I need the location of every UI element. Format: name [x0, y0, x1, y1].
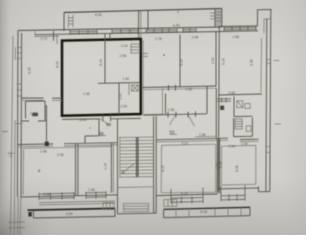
- east outer wall: [270, 10, 271, 192]
- porch box left of entrance: [103, 203, 114, 210]
- room1 inner top line: [24, 147, 76, 148]
- left parapet top (thick dark): [28, 208, 116, 210]
- bathroom inner divider: [128, 83, 130, 95]
- north wall joint tick: [34, 30, 36, 35]
- vestibule wall horizontal: [85, 135, 99, 137]
- vestibule wall vertical x99: [98, 119, 100, 136]
- south wall bottom-right room3: [156, 194, 217, 196]
- entrance bay bottom: [118, 212, 157, 215]
- south wall bottom-right room4: [217, 187, 258, 190]
- north wall main band outer: [18, 27, 222, 31]
- east room bottom wall y94: [219, 94, 262, 95]
- room1 inner left line: [22, 148, 24, 194]
- south wall bottom-left: [21, 195, 118, 197]
- west wall window: [15, 47, 21, 60]
- middle horizontal wall y86: [142, 86, 217, 88]
- stair treads: [120, 137, 154, 177]
- window left south 1: [39, 192, 74, 200]
- entrance steps: [124, 204, 149, 212]
- bathroom top wall: [119, 82, 140, 84]
- room4 inner outline: [220, 146, 222, 185]
- dark blob left parapet: [28, 212, 31, 217]
- window W5 right north: [224, 26, 256, 31]
- west dimension dash: [2, 130, 8, 132]
- lobby line: [118, 186, 154, 189]
- dark door blob: [45, 142, 49, 146]
- east dimension dash upper: [274, 60, 280, 62]
- dimension line above 2.70: [35, 35, 60, 37]
- room3 inner outline: [160, 145, 162, 192]
- window W3 in north wall: [146, 29, 177, 34]
- apt number underlines: [99, 135, 106, 137]
- east room inner right line: [260, 38, 263, 93]
- bay shaft right fill: [215, 10, 222, 27]
- middle hall wall x165: [165, 94, 167, 115]
- stairs shaft right wall: [153, 116, 155, 213]
- room2 right wall: [110, 143, 112, 193]
- stair center stringer: [135, 137, 137, 177]
- west wall joint tick: [16, 122, 23, 124]
- bay partition at x139: [138, 11, 140, 40]
- dust speck: [163, 54, 165, 56]
- stairs shaft left wall: [117, 119, 119, 214]
- apt49 door leaf: [101, 119, 111, 126]
- east wc partition horizontal y116: [234, 115, 253, 117]
- bold apt partition: [104, 34, 106, 83]
- top wall tick mark: [177, 10, 179, 13]
- east wall window ticks lower: [266, 147, 270, 153]
- south outer face lines left: [39, 201, 115, 203]
- bottom-left shadow: [0, 175, 80, 235]
- north wall right portion inner: [222, 30, 258, 33]
- vent shaft box with X: [132, 85, 139, 91]
- right south window 1: [171, 188, 203, 204]
- east wall window ticks upper: [267, 60, 271, 64]
- upper middle room walls x180: [179, 35, 181, 87]
- wall stub left of bold apt: [53, 31, 55, 41]
- corridor wall below bold apt: [62, 118, 100, 121]
- vestibule wall vertical x85: [84, 136, 86, 143]
- window left south 2: [86, 191, 106, 199]
- small room left: [26, 101, 46, 121]
- east wc fixtures: [237, 101, 250, 109]
- vertical dimension texts: [9, 57, 254, 172]
- east shaft dark blob: [220, 106, 224, 110]
- east wall bottom stub: [259, 191, 271, 193]
- bathroom wall vertical: [118, 83, 120, 114]
- left apt room bottom wall: [22, 97, 44, 99]
- window W1 in north wall: [70, 30, 97, 35]
- window W2 in north wall: [112, 29, 138, 34]
- bay partition at x148: [147, 11, 149, 31]
- dimension texts: [30, 13, 248, 216]
- north wall main band inner: [35, 32, 223, 35]
- corridor wall left top: [21, 120, 29, 122]
- closet wall stub x57: [56, 34, 58, 44]
- top-right vent box in bold apt: [131, 44, 140, 53]
- right south window 2: [221, 185, 245, 201]
- dark fixture in small room: [32, 113, 38, 116]
- left parapet bottom: [34, 216, 116, 218]
- middle hall wall x207: [206, 86, 208, 113]
- west wall window lower: [17, 84, 21, 96]
- middle hall bottom wall y114: [144, 114, 208, 115]
- bold apt hall wall: [98, 82, 119, 84]
- east apt left wall: [218, 26, 219, 192]
- hall door jambs and leaves: [167, 112, 169, 118]
- east wc partition vertical x234: [233, 96, 235, 116]
- east dimension dash lower: [275, 123, 282, 125]
- window W4 in north wall: [183, 28, 196, 33]
- bay shaft right: [215, 9, 222, 27]
- west outer wall: [16, 31, 19, 198]
- corridor bottom wall left part: [18, 143, 54, 146]
- apt49 door jamb ticks: [102, 114, 104, 121]
- upper middle room wall x216: [215, 32, 217, 86]
- right parapet: [164, 207, 250, 209]
- window dash right of bold: [143, 53, 149, 56]
- dust speck 2: [89, 127, 90, 128]
- north bay top wall: [64, 9, 222, 13]
- stair arrow: [122, 164, 135, 174]
- porch box right of entrance: [164, 200, 177, 207]
- east bathroom box: [234, 118, 253, 137]
- room1 right wall: [75, 144, 77, 196]
- kitchen wall inner face right of bold: [142, 40, 144, 115]
- east wall inner upper line: [263, 20, 265, 34]
- bold apartment outline: [62, 39, 141, 116]
- right rooms top wall y138: [156, 138, 228, 140]
- north wall right portion outer: [218, 25, 258, 28]
- north bay left wall: [63, 13, 65, 32]
- east hall window band: [217, 98, 231, 103]
- room2 inner top line: [78, 146, 111, 149]
- wall x47 corridor: [46, 105, 48, 144]
- NE corner step: [257, 9, 272, 11]
- bay flue shaft left: [69, 15, 74, 28]
- room3/room4 divider: [216, 139, 218, 194]
- middle corridor wall y136 right: [195, 135, 216, 138]
- bath tub hatch: [235, 119, 251, 131]
- west dimension ticks bottom: [8, 221, 25, 224]
- west dimension extension lines to bottom edge: [11, 36, 14, 235]
